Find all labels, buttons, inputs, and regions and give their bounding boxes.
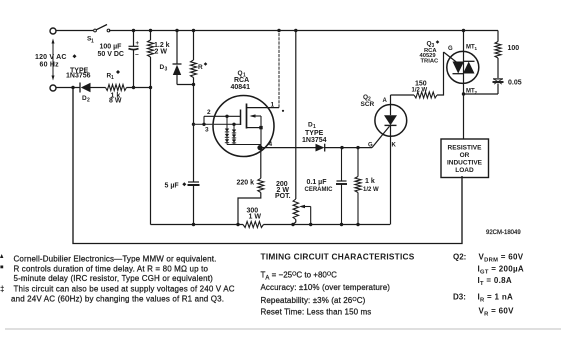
svg-text:+: + bbox=[136, 41, 140, 47]
svg-text:Accuracy: ±10% (over temperat: Accuracy: ±10% (over temperature) bbox=[261, 283, 391, 292]
svg-text:D3:: D3: bbox=[453, 293, 466, 302]
svg-text:LOAD: LOAD bbox=[455, 167, 474, 174]
svg-text:0.1 µF: 0.1 µF bbox=[307, 179, 328, 186]
svg-text:1: 1 bbox=[111, 75, 114, 81]
svg-text:K: K bbox=[392, 143, 397, 149]
svg-text:1: 1 bbox=[91, 38, 94, 44]
svg-text:5-minute delay (IRC resistor,: 5-minute delay (IRC resistor, Type CGH o… bbox=[14, 274, 214, 283]
svg-text:POT.: POT. bbox=[275, 193, 291, 200]
svg-text:120 V AC: 120 V AC bbox=[35, 54, 67, 61]
svg-text:TRIAC: TRIAC bbox=[421, 59, 440, 65]
svg-text:Q2:: Q2: bbox=[453, 253, 466, 262]
svg-text:RESISTIVE: RESISTIVE bbox=[448, 145, 483, 152]
svg-text:‡: ‡ bbox=[0, 285, 4, 294]
svg-text:TIMING CIRCUIT CHARACTERISTICS: TIMING CIRCUIT CHARACTERISTICS bbox=[261, 252, 415, 262]
svg-text:1 W: 1 W bbox=[249, 213, 262, 220]
svg-text:Repeatability: ±3% (at 26OC): Repeatability: ±3% (at 26OC) bbox=[261, 296, 366, 305]
svg-text:INDUCTIVE: INDUCTIVE bbox=[447, 160, 483, 167]
svg-text:1N3754: 1N3754 bbox=[302, 137, 327, 144]
svg-text:R: R bbox=[198, 64, 203, 71]
svg-text:2 W: 2 W bbox=[155, 48, 168, 55]
svg-text:Reset Time: Less than 150 ms: Reset Time: Less than 150 ms bbox=[261, 308, 372, 317]
svg-text:0.05: 0.05 bbox=[508, 80, 522, 87]
svg-text:This circuit can also be used: This circuit can also be used at supply … bbox=[14, 284, 235, 293]
svg-text:40841: 40841 bbox=[231, 84, 251, 91]
svg-text:SCR: SCR bbox=[361, 101, 375, 108]
svg-text:OR: OR bbox=[460, 152, 470, 159]
svg-text:Q: Q bbox=[238, 70, 243, 77]
svg-text:50 V DC: 50 V DC bbox=[98, 51, 124, 58]
svg-text:1: 1 bbox=[271, 102, 275, 109]
svg-text:R controls duration of time de: R controls duration of time delay. At R … bbox=[14, 264, 209, 273]
svg-text:1/2 W: 1/2 W bbox=[363, 187, 379, 193]
svg-text:TYPE: TYPE bbox=[305, 130, 324, 137]
svg-text:2: 2 bbox=[207, 109, 211, 116]
svg-text:5 µF: 5 µF bbox=[165, 183, 180, 190]
svg-text:Cornell-Dubilier Electronics—T: Cornell-Dubilier Electronics—Type MMW or… bbox=[14, 255, 217, 264]
svg-text:1N3756: 1N3756 bbox=[66, 73, 91, 80]
svg-text:60 Hz: 60 Hz bbox=[40, 62, 60, 69]
svg-text:1 k: 1 k bbox=[365, 178, 375, 185]
svg-text:−: − bbox=[135, 52, 139, 59]
svg-text:100: 100 bbox=[508, 45, 520, 52]
svg-text:3: 3 bbox=[205, 127, 209, 134]
svg-text:100 µF: 100 µF bbox=[100, 44, 123, 51]
svg-text:G: G bbox=[448, 46, 453, 52]
svg-text:4: 4 bbox=[269, 141, 273, 148]
svg-text:2: 2 bbox=[87, 98, 90, 104]
svg-text:1/2 W: 1/2 W bbox=[412, 87, 428, 93]
svg-text:220 k: 220 k bbox=[237, 180, 255, 187]
svg-text:RCA: RCA bbox=[234, 77, 249, 84]
svg-text:3: 3 bbox=[165, 67, 168, 73]
svg-text:A: A bbox=[383, 98, 388, 104]
svg-text:CERAMIC: CERAMIC bbox=[305, 187, 334, 193]
svg-text:and 24V AC (60Hz) by changing: and 24V AC (60Hz) by changing the values… bbox=[11, 295, 224, 304]
svg-text:92CM-18049: 92CM-18049 bbox=[486, 230, 521, 236]
svg-text:8 W: 8 W bbox=[109, 98, 122, 105]
svg-text:G: G bbox=[368, 143, 373, 149]
